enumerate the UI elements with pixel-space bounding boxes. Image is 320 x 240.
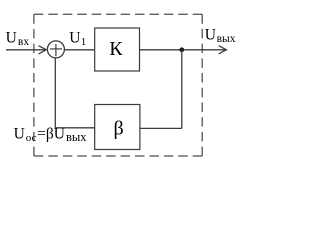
- output arrowhead: [219, 46, 227, 54]
- summing junction (adder): [47, 41, 64, 58]
- dashed feedback-system boundary box: top edge: [34, 13, 202, 15]
- wire: K block to output arrow: [140, 49, 227, 51]
- wire: left feedback vertical up to summing junction: [54, 58, 56, 128]
- amplifier block K: [95, 28, 140, 71]
- svg-text:К: К: [109, 38, 123, 60]
- wire: beta block output to left: [55, 127, 94, 129]
- wire: input line Uвх to summing junction: [6, 49, 46, 51]
- output node junction dot: [179, 47, 184, 52]
- wire: node down (right feedback vertical): [181, 50, 183, 129]
- dashed boundary: bottom edge: [34, 155, 202, 157]
- dashed boundary: left edge: [33, 14, 35, 156]
- wire: right feedback horizontal into beta block: [140, 127, 182, 129]
- plus sign in summing junction: [50, 48, 62, 50]
- wire: summing junction to K block: [65, 49, 95, 51]
- feedback block beta: [95, 105, 140, 150]
- svg-text:β: β: [114, 118, 124, 140]
- input arrowhead: [39, 46, 47, 54]
- dashed boundary: right edge: [201, 14, 203, 156]
